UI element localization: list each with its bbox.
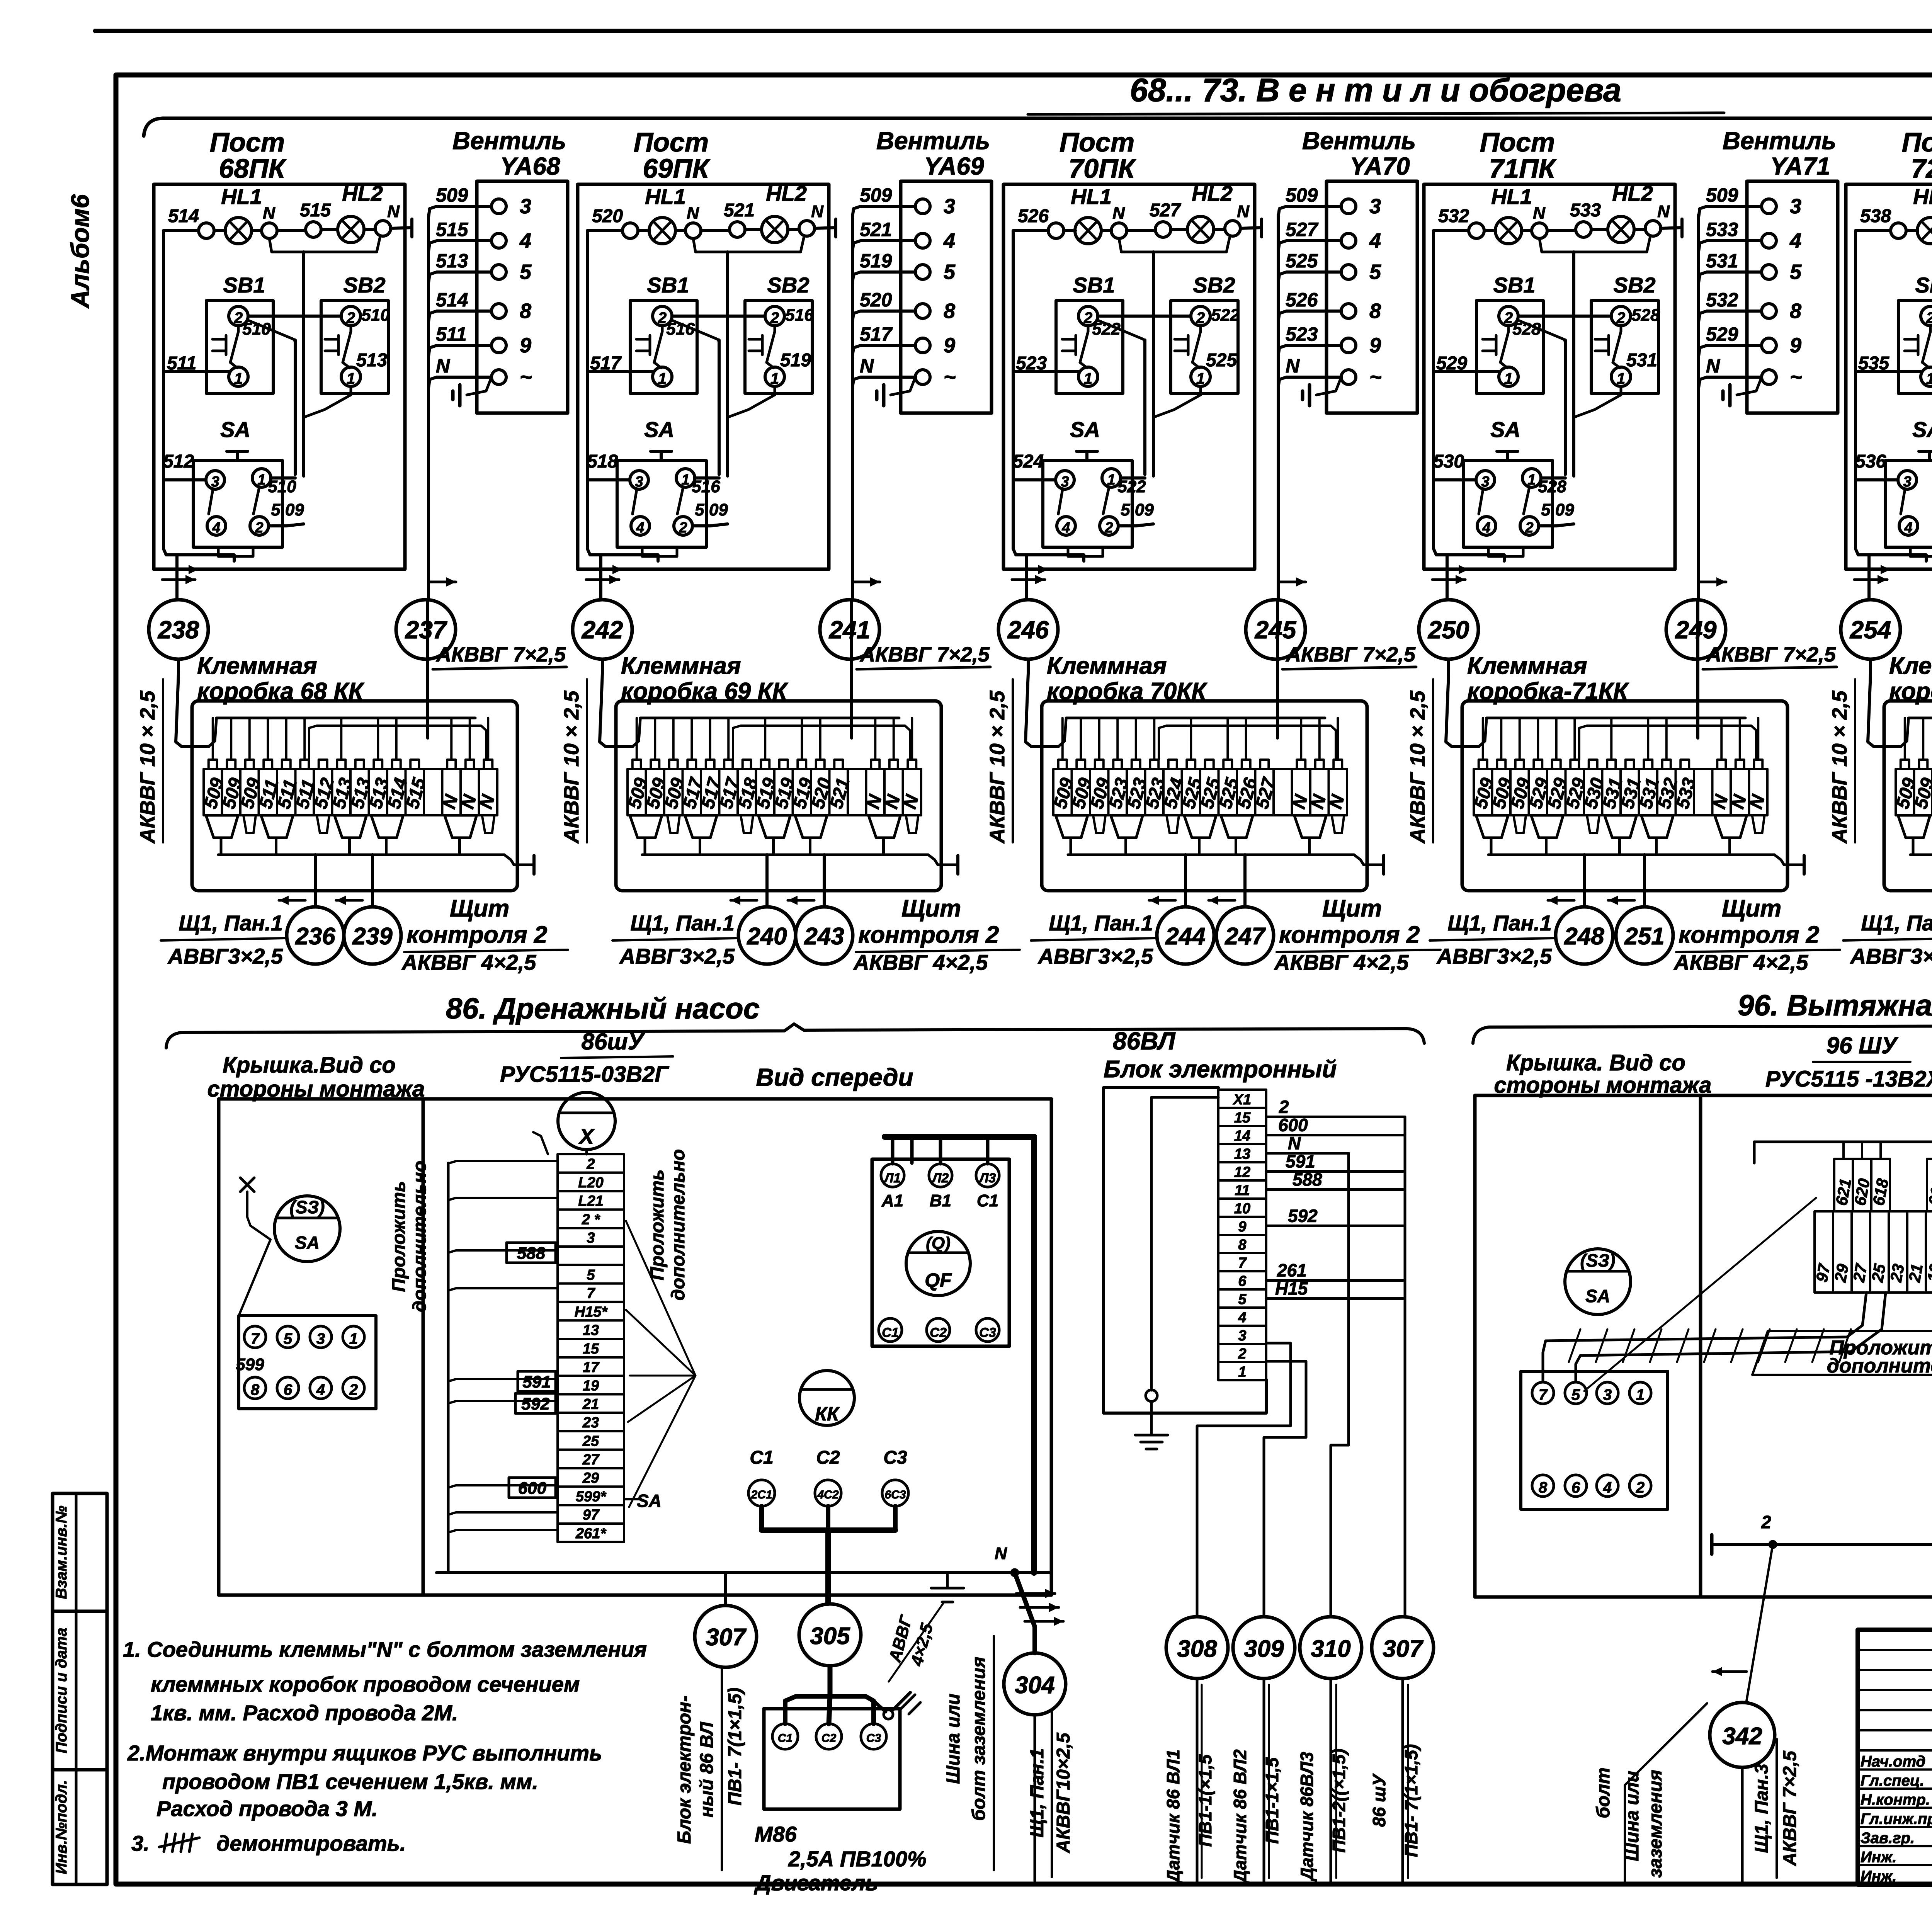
svg-text:Пост: Пост (210, 127, 285, 157)
svg-text:SB1: SB1 (1915, 273, 1932, 297)
wire (1522, 229, 1532, 232)
svg-text:С1: С1 (778, 1732, 793, 1745)
svg-text:2: 2 (1525, 520, 1533, 536)
pin96 3 (1597, 1382, 1618, 1404)
wire bus to node (1697, 215, 1700, 599)
SA pin 4 (207, 517, 226, 535)
svg-text:Щ1, Пан.3: Щ1, Пан.3 (1752, 1764, 1772, 1853)
svg-text:контроля 2: контроля 2 (858, 922, 999, 948)
SB1 pin 2 (1921, 306, 1932, 326)
svg-text:513: 513 (356, 350, 387, 371)
wire bottom (163, 549, 234, 561)
hatch (1569, 1329, 1580, 1362)
SA bottom tab (642, 547, 677, 556)
node 243 (796, 907, 853, 964)
svg-text:526: 526 (1286, 289, 1318, 311)
junction (1769, 1541, 1776, 1548)
wire to SB1 (1434, 370, 1499, 373)
svg-text:261*: 261* (575, 1526, 607, 1542)
wire drop (1904, 718, 1906, 760)
wire to SB1 (1013, 370, 1078, 373)
wire bottom (1855, 549, 1926, 561)
wire left vertical (1012, 231, 1015, 549)
wire right exit (504, 855, 534, 865)
breaker QF box 86 (872, 1159, 1009, 1346)
svg-text:~: ~ (1369, 366, 1382, 389)
svg-text:1: 1 (1636, 1386, 1645, 1403)
svg-text:2: 2 (658, 310, 667, 327)
wire tag 600 (509, 1478, 556, 1498)
wire drop (764, 718, 766, 760)
wire drop (636, 718, 638, 760)
terminal N (262, 223, 277, 238)
QF bottom pin С3 (976, 1318, 999, 1342)
contact 6С3 (882, 1480, 908, 1506)
bus (1488, 854, 1774, 856)
svg-text:Л3: Л3 (978, 1171, 996, 1185)
pin 1 (343, 1326, 364, 1348)
bus (642, 854, 928, 856)
wire from node into box (1868, 659, 1901, 747)
SB1 actuator (1075, 335, 1077, 355)
svg-text:2: 2 (1196, 310, 1205, 327)
hatch (1623, 1329, 1634, 1362)
svg-text:Взам.инв.№: Взам.инв.№ (53, 1505, 70, 1599)
wire drop (819, 718, 821, 760)
svg-text:10: 10 (1234, 1201, 1250, 1217)
svg-text:9: 9 (944, 334, 955, 357)
wire drop (303, 718, 306, 760)
SA contact (1103, 487, 1109, 514)
svg-text:1: 1 (1107, 472, 1115, 488)
svg-text:3: 3 (520, 195, 531, 218)
svg-text:8: 8 (944, 299, 955, 323)
cable arrow (162, 578, 195, 581)
wire drop (1555, 718, 1558, 760)
wire drop (377, 718, 379, 760)
SB1 pin 2 (653, 306, 672, 326)
svg-text:(SЗ): (SЗ) (1580, 1250, 1616, 1270)
svg-text:527: 527 (1150, 200, 1181, 221)
svg-text:HL2: HL2 (766, 181, 807, 206)
valve YA70 terminals (1341, 199, 1356, 214)
SA pin 3 (1476, 471, 1495, 489)
node 309 (1233, 1617, 1295, 1679)
wire drop (1153, 718, 1155, 760)
svg-text:97: 97 (1813, 1262, 1834, 1284)
svg-text:3: 3 (1790, 195, 1801, 218)
svg-text:522: 522 (1211, 306, 1240, 325)
SA handle (651, 450, 672, 453)
node 307 (695, 1605, 757, 1667)
svg-text:588: 588 (517, 1244, 546, 1263)
terminal plugs (1476, 815, 1508, 838)
wire bus to node (851, 215, 854, 599)
wire (1547, 229, 1576, 232)
QF top pin Л2 (929, 1164, 952, 1187)
wire (1479, 719, 1486, 747)
svg-text:Гл.спец.: Гл.спец. (1861, 1772, 1924, 1789)
svg-text:АКВВГ 4×2,5: АКВВГ 4×2,5 (401, 950, 536, 975)
svg-text:70ПК: 70ПК (1068, 153, 1136, 184)
svg-text:532: 532 (1438, 206, 1469, 226)
node 245 (1246, 600, 1305, 659)
bus wire (216, 717, 475, 719)
wire right exit (928, 855, 958, 865)
contact 2С1 (748, 1480, 775, 1506)
wire drop (893, 718, 895, 760)
svg-text:5: 5 (944, 260, 956, 284)
wire (1064, 229, 1075, 232)
valve ground (1737, 377, 1762, 395)
wire SB2 down (1153, 386, 1201, 417)
svg-text:2: 2 (1238, 1346, 1246, 1362)
wire to node (175, 555, 179, 599)
svg-text:3: 3 (1061, 474, 1069, 490)
svg-text:3: 3 (1603, 1386, 1612, 1403)
bus wire (1066, 717, 1325, 719)
svg-text:528: 528 (1538, 477, 1566, 496)
svg-text:Зав.гр.: Зав.гр. (1861, 1830, 1915, 1847)
lamp HL2 69 (762, 216, 788, 243)
svg-text:Щ1, Пан.1: Щ1, Пан.1 (179, 911, 283, 935)
wire (364, 228, 375, 231)
svg-text:4: 4 (1904, 520, 1912, 536)
svg-text:SA: SA (637, 1491, 662, 1511)
wire (718, 340, 721, 474)
terminal box 68КК (192, 701, 517, 891)
tally symbol (164, 1834, 167, 1852)
SB2 pin 1 (341, 367, 361, 386)
svg-text:249: 249 (1675, 616, 1717, 644)
button SB2 70 (1171, 301, 1238, 393)
SB2 actuator (337, 335, 340, 355)
wire from node 2 (1696, 701, 1699, 738)
wire (1143, 340, 1146, 474)
svg-text:3: 3 (944, 195, 955, 218)
post box 69ПК (578, 184, 829, 569)
svg-text:N: N (1237, 202, 1250, 221)
bus (218, 854, 504, 856)
svg-text:L20: L20 (578, 1175, 603, 1191)
wire SB1-SB2 (248, 315, 341, 318)
svg-text:23: 23 (582, 1415, 599, 1431)
svg-text:L21: L21 (578, 1193, 603, 1209)
svg-text:1: 1 (347, 370, 355, 387)
node 254 (1841, 600, 1900, 659)
connector block 96 (1521, 1371, 1668, 1509)
SA pin 4 (1477, 517, 1496, 535)
wire (1634, 228, 1645, 231)
svg-text:4: 4 (1238, 1310, 1246, 1326)
wire (1214, 228, 1225, 231)
wire (277, 229, 306, 232)
wire drop (1337, 718, 1339, 760)
bus wire 2 (733, 726, 910, 760)
arrow (1025, 1620, 1063, 1623)
SA pin 3 (630, 471, 648, 489)
svg-text:Клеммная: Клеммная (621, 653, 741, 679)
wire to SA (1434, 478, 1476, 481)
wire bottom (1013, 549, 1084, 561)
wire drop (212, 718, 214, 760)
wire drop (230, 718, 232, 760)
wire (1118, 524, 1153, 526)
svg-text:АВВГ3×2,5: АВВГ3×2,5 (1436, 944, 1552, 968)
svg-text:5 09: 5 09 (1121, 500, 1154, 519)
wire diag (1097, 320, 1145, 342)
pin96 1 (1629, 1382, 1651, 1404)
wire (1240, 228, 1262, 228)
svg-text:307: 307 (706, 1624, 747, 1651)
svg-text:QF: QF (925, 1269, 952, 1291)
wire (214, 229, 226, 232)
wire drop (395, 718, 398, 760)
assembly box 96ШУ (1475, 1095, 1932, 1597)
svg-text:1: 1 (1527, 472, 1536, 488)
bottom bus 96 (1712, 1543, 1932, 1546)
SA handle (1077, 450, 1097, 453)
node 246 (998, 600, 1058, 659)
svg-text:Инж.: Инж. (1861, 1868, 1897, 1885)
wire from node into box (1026, 659, 1058, 747)
cable arrow (430, 581, 456, 583)
bus (1068, 854, 1354, 856)
lamp HL2 71 (1608, 216, 1634, 243)
wire drop (1098, 718, 1100, 760)
svg-text:Щ1, Пан.1: Щ1, Пан.1 (1861, 911, 1932, 935)
svg-text:АКВВГ 7×2,5: АКВВГ 7×2,5 (1780, 1750, 1800, 1866)
connector block 86 (239, 1316, 376, 1409)
svg-text:1: 1 (658, 370, 667, 387)
wire SB2 down (1574, 386, 1621, 417)
svg-text:С2: С2 (821, 1732, 837, 1745)
terminal box 71КК (1462, 701, 1787, 891)
SB1 actuator (225, 335, 228, 355)
node 236 (287, 907, 344, 964)
top bus 96 (1754, 1141, 1932, 1143)
wire to 307b (1404, 1117, 1406, 1617)
wire middle vertical (1572, 252, 1575, 476)
pin96 6 (1565, 1475, 1587, 1497)
svg-text:Шина или: Шина или (1622, 1771, 1643, 1861)
svg-text:4: 4 (1789, 229, 1801, 252)
cable 304 (1034, 1715, 1036, 1881)
svg-text:531: 531 (1626, 350, 1657, 371)
svg-text:КК: КК (815, 1403, 840, 1425)
terminal bar (956, 855, 959, 874)
svg-text:511: 511 (436, 323, 467, 345)
svg-text:SA: SA (1070, 417, 1100, 442)
hatch (1812, 1329, 1824, 1362)
svg-text:516: 516 (785, 306, 814, 325)
svg-text:N: N (1533, 204, 1546, 223)
SB1 pin 1 (1921, 367, 1932, 386)
switch SA 72 (1885, 461, 1932, 547)
svg-text:HL2: HL2 (1612, 181, 1653, 206)
wire to node botL (1583, 855, 1586, 907)
terminal 526 (1048, 223, 1064, 238)
button SB1 69 (630, 301, 697, 393)
svg-text:8: 8 (251, 1381, 260, 1398)
wire right exit (1354, 855, 1384, 865)
svg-text:3: 3 (1238, 1328, 1246, 1344)
terminal 533 (1576, 222, 1591, 237)
terminal plugs (206, 815, 238, 838)
svg-text:Щ1, Пан.1: Щ1, Пан.1 (1027, 1748, 1048, 1837)
valve box YA70 (1327, 181, 1417, 413)
divider (422, 1099, 425, 1595)
svg-text:517: 517 (860, 323, 893, 345)
svg-text:АКВВГ 10 × 2,5: АКВВГ 10 × 2,5 (986, 690, 1009, 844)
switch S3/SA 96 (1565, 1249, 1631, 1315)
terminal N (1532, 223, 1547, 238)
wire (788, 228, 799, 231)
svg-text:520: 520 (592, 206, 623, 226)
svg-text:5 09: 5 09 (271, 500, 304, 519)
svg-text:Клеммная: Клеммная (1047, 653, 1167, 679)
svg-text:Пост: Пост (1480, 127, 1555, 157)
svg-text:дополнительно: дополнительно (1827, 1355, 1932, 1377)
svg-text:592: 592 (1288, 1206, 1318, 1226)
wire to node botL (1184, 855, 1187, 907)
svg-text:525: 525 (1286, 250, 1318, 272)
svg-text:86. Дренажный насос: 86. Дренажный насос (446, 992, 760, 1025)
SB2 pin 1 (1191, 367, 1210, 386)
wire tag 588 (507, 1243, 556, 1263)
bus wire 2 (1579, 726, 1756, 760)
wire drop (1720, 718, 1723, 760)
cable arrow (1548, 899, 1574, 902)
svg-text:2С1: 2С1 (750, 1488, 772, 1501)
wire (252, 229, 262, 232)
svg-text:Пост: Пост (634, 127, 709, 157)
terminal plugs (1056, 815, 1088, 838)
wire drop (1135, 718, 1137, 760)
svg-text:SA: SA (220, 417, 250, 442)
wire (1855, 229, 1891, 232)
svg-text:ПВ1-2((×1,5): ПВ1-2((×1,5) (1329, 1748, 1349, 1853)
wire drop (672, 718, 675, 760)
node 237 (396, 600, 456, 659)
motor M86 box (764, 1709, 900, 1809)
svg-text:519: 519 (780, 350, 811, 371)
wire to 342 (1747, 1544, 1773, 1701)
svg-text:Щ1, Пан.1: Щ1, Пан.1 (630, 911, 735, 935)
wire end bar (1260, 219, 1263, 237)
pin 5 (277, 1326, 299, 1348)
svg-text:8: 8 (1369, 299, 1381, 323)
svg-text:Вентиль: Вентиль (876, 127, 990, 155)
wire SB2 down (728, 386, 775, 417)
wire drop (801, 718, 803, 760)
svg-text:N: N (1286, 355, 1300, 377)
cable arrow (1012, 578, 1045, 581)
valve YA69 terminals (915, 199, 930, 214)
wire drop (450, 718, 452, 760)
bus wire (1486, 717, 1745, 719)
wire (1276, 599, 1279, 701)
svg-text:YA71: YA71 (1770, 152, 1830, 180)
svg-text:HL1: HL1 (1491, 184, 1532, 209)
svg-text:3: 3 (211, 474, 219, 490)
svg-text:15: 15 (1234, 1110, 1251, 1126)
svg-text:533: 533 (1706, 219, 1738, 240)
lamp HL1 71 (1495, 218, 1522, 244)
svg-text:ный 86 ВЛ: ный 86 ВЛ (697, 1721, 717, 1817)
wire (1661, 228, 1682, 228)
SA contact (253, 487, 259, 514)
wire end bar (410, 219, 413, 237)
svg-text:С1: С1 (882, 1325, 898, 1340)
svg-text:Расход провода 3 М.: Расход провода 3 М. (156, 1796, 378, 1821)
svg-text:Нач.отд: Нач.отд (1861, 1753, 1925, 1770)
svg-text:15: 15 (583, 1341, 599, 1357)
svg-text:дополнительно: дополнительно (410, 1161, 430, 1312)
SB1 pin 1 (1078, 367, 1098, 386)
lamp HL2 68 (338, 216, 364, 243)
lamp HL1 68 (225, 218, 252, 244)
svg-text:8: 8 (520, 299, 531, 323)
wire diag (1625, 1703, 1707, 1882)
svg-text:245: 245 (1255, 616, 1297, 644)
svg-text:19: 19 (583, 1378, 599, 1394)
valve ground (467, 377, 492, 395)
svg-text:HL1: HL1 (1913, 184, 1932, 209)
wire drop (911, 718, 913, 760)
terminal strip 70КК (1053, 769, 1072, 815)
svg-text:Клеммная: Клеммная (1889, 653, 1932, 679)
terminal strip 72КК (1896, 769, 1914, 815)
svg-text:1: 1 (1238, 1364, 1246, 1380)
svg-text:N: N (860, 355, 874, 377)
svg-text:591: 591 (1286, 1151, 1315, 1172)
M86 terminal С3 (861, 1724, 886, 1749)
wire drop (487, 718, 489, 760)
svg-text:1: 1 (1504, 370, 1513, 387)
svg-text:27: 27 (1849, 1262, 1871, 1284)
svg-text:514: 514 (436, 289, 468, 311)
svg-text:6: 6 (284, 1381, 293, 1398)
terminal N2 (1645, 221, 1661, 236)
wire drop (1739, 718, 1741, 760)
wire (1101, 229, 1111, 232)
wire (675, 229, 685, 232)
wire (1539, 524, 1574, 526)
svg-text:513: 513 (436, 250, 468, 272)
svg-text:8: 8 (1539, 1479, 1548, 1496)
wire (695, 476, 719, 480)
SB2 actuator (761, 335, 764, 355)
svg-text:241: 241 (829, 616, 871, 644)
bus wire 2 (1159, 726, 1336, 760)
svg-text:SA: SA (295, 1233, 320, 1253)
SA pin 2 (1520, 517, 1539, 535)
svg-text:АКВВГ 4×2,5: АКВВГ 4×2,5 (853, 950, 988, 975)
svg-text:307: 307 (1383, 1636, 1423, 1662)
wire drop (1318, 718, 1321, 760)
button SB1 71 (1476, 301, 1543, 393)
wire (1484, 229, 1496, 232)
svg-text:5 09: 5 09 (1541, 500, 1574, 519)
svg-text:68ПК: 68ПК (219, 153, 287, 184)
svg-text:3: 3 (635, 474, 643, 490)
title underline (1028, 113, 1724, 114)
SB2 pin 2 (765, 306, 784, 326)
bus wire (640, 717, 899, 719)
SA contact (1524, 487, 1529, 514)
svg-text:контроля 2: контроля 2 (1679, 922, 1819, 948)
